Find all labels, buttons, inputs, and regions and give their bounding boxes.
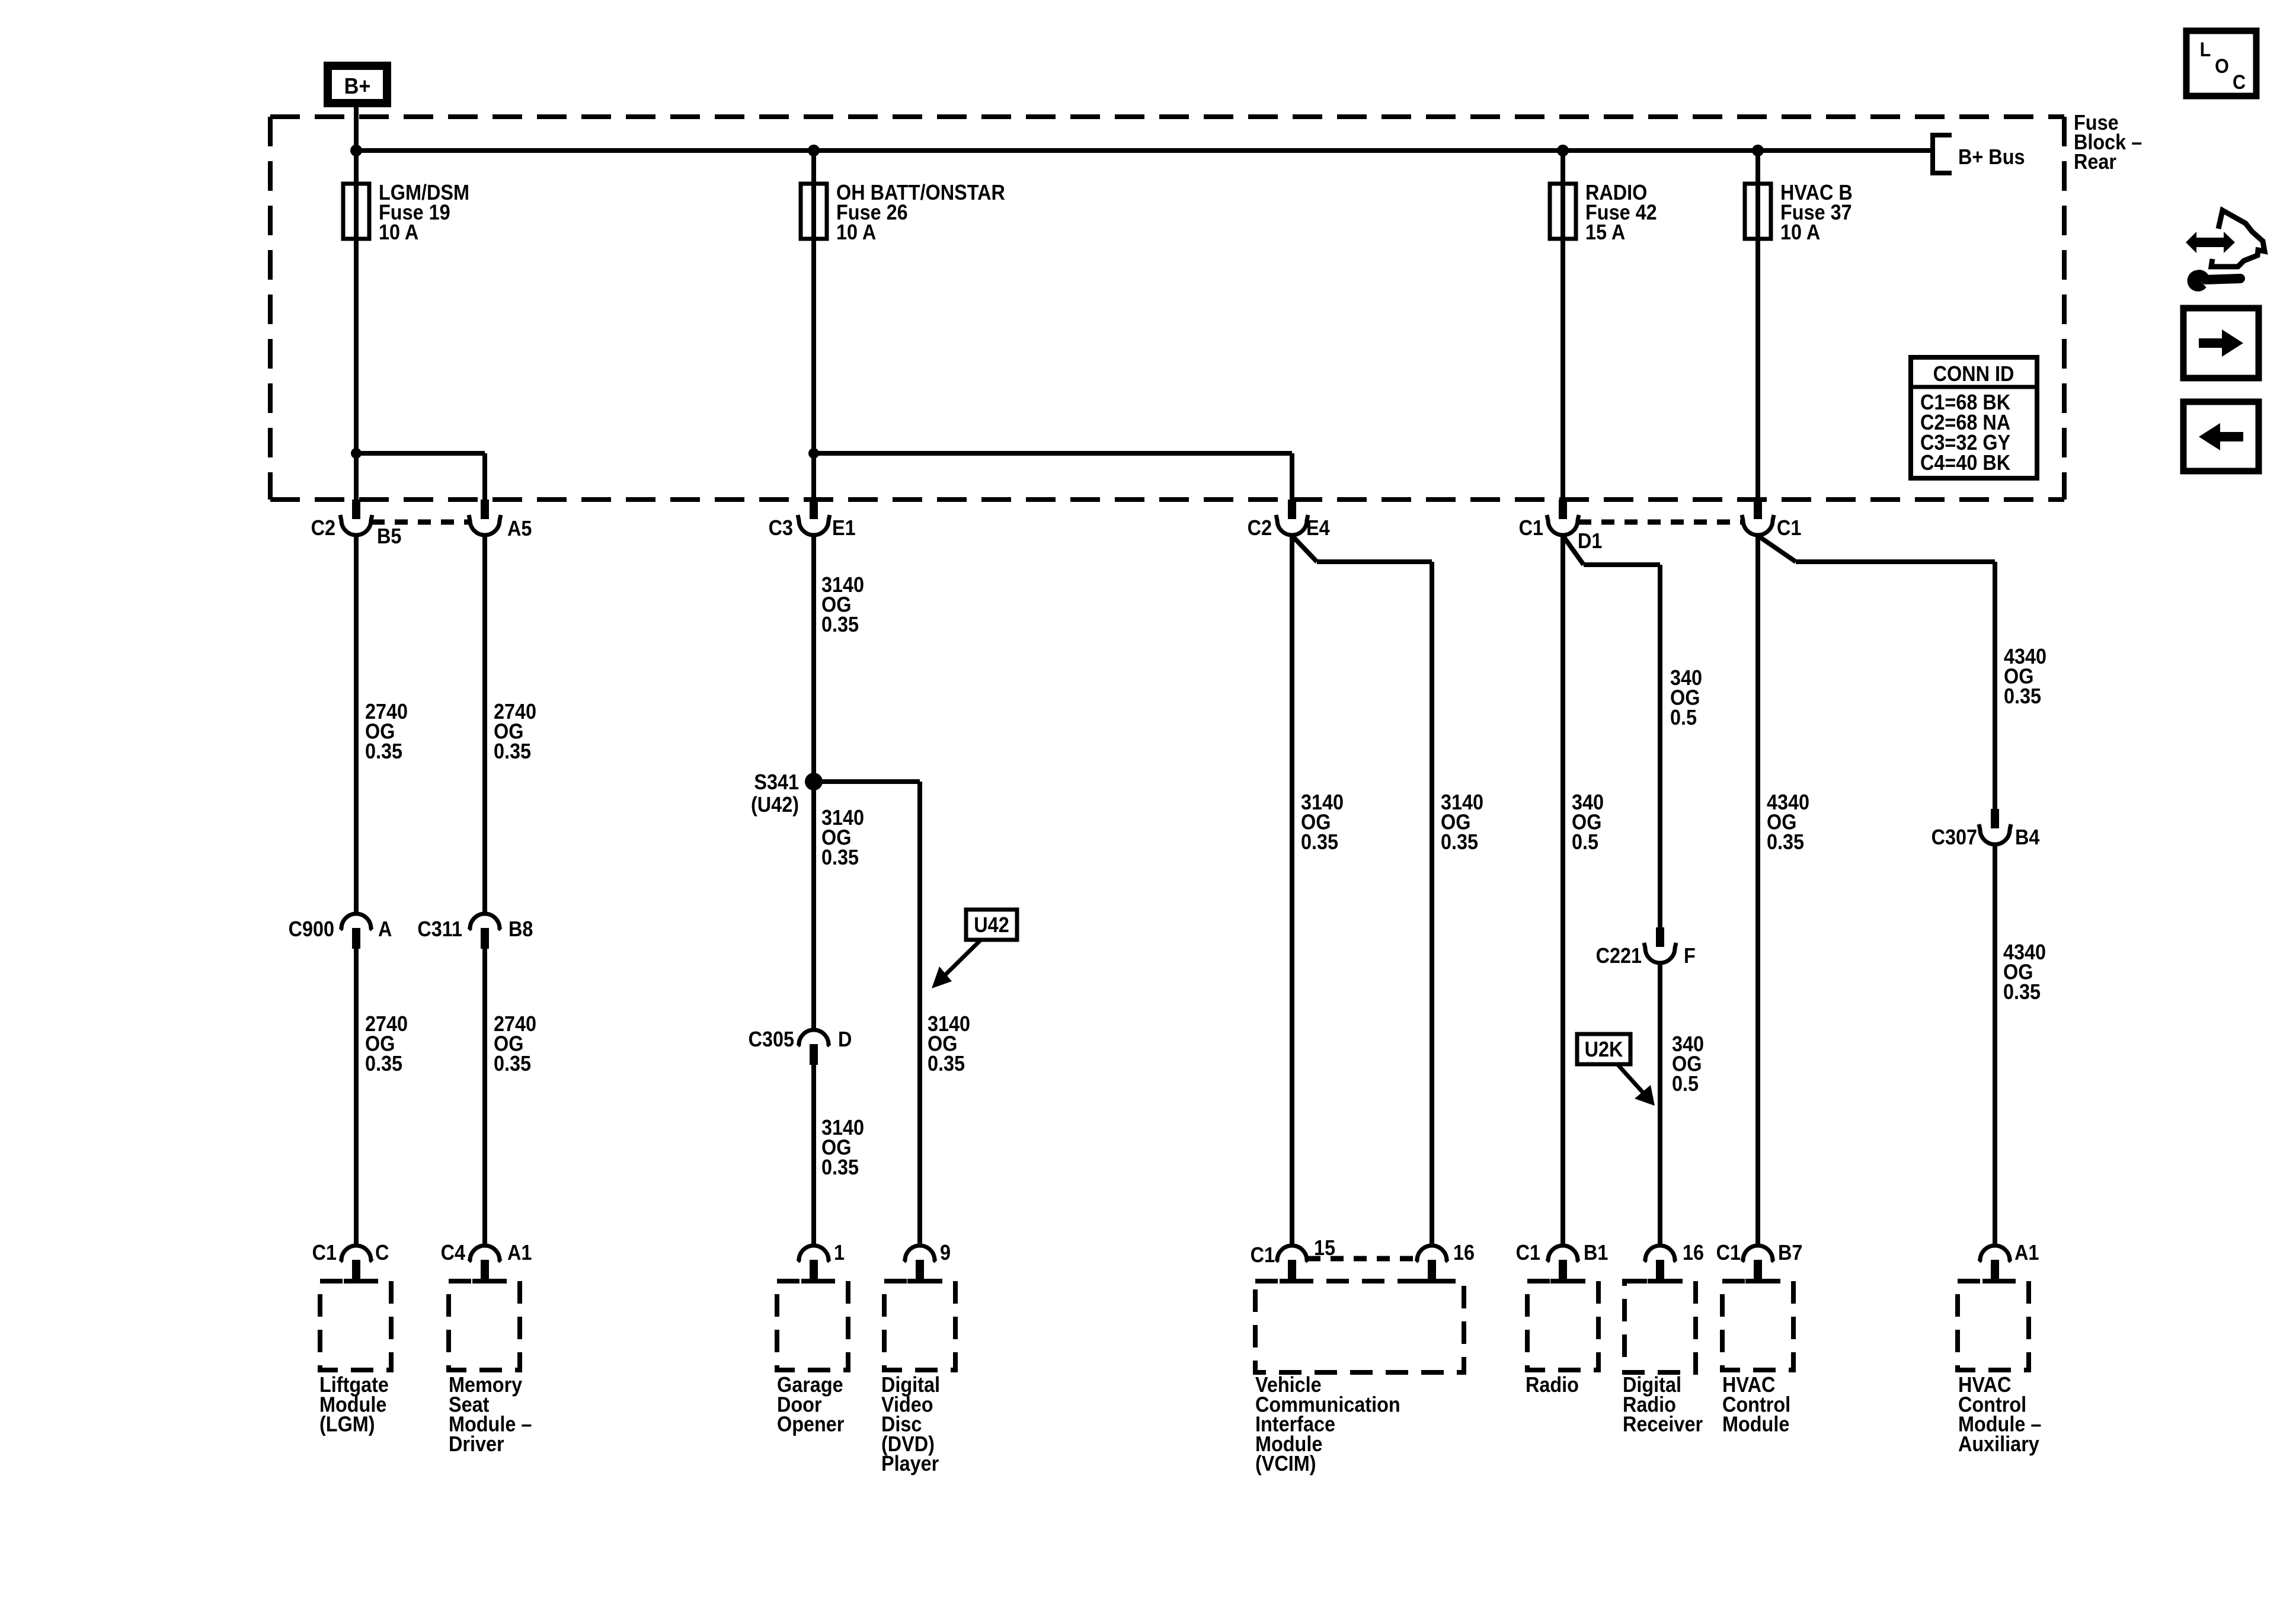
svg-text:(U42): (U42)	[751, 793, 799, 817]
svg-text:CONN ID: CONN ID	[1933, 362, 2014, 386]
wire 2740 OG to C311	[482, 536, 487, 914]
svg-text:C311: C311	[417, 917, 462, 941]
svg-text:Player: Player	[881, 1452, 939, 1476]
fuse F19 LGM/DSM	[343, 184, 369, 239]
svg-text:Driver: Driver	[449, 1432, 504, 1456]
wire branch D1 to DRR	[1563, 536, 1584, 565]
svg-text:A1: A1	[507, 1241, 532, 1265]
svg-text:0.35: 0.35	[1301, 830, 1338, 854]
junction split fuse19 branch	[351, 448, 362, 459]
svg-text:Module: Module	[1722, 1413, 1789, 1436]
dotted link 15-16	[1307, 1256, 1416, 1262]
wire 3140 OG from E1	[811, 536, 816, 1030]
svg-text:10 A: 10 A	[379, 220, 418, 244]
wire 3140 OG to GDO	[811, 1064, 816, 1246]
battery node B+	[328, 66, 387, 103]
svg-text:0.35: 0.35	[2004, 684, 2041, 708]
wrench icon	[2189, 271, 2208, 290]
svg-text:1: 1	[834, 1241, 845, 1265]
radio box	[1527, 1281, 1598, 1370]
wire branch to A5	[356, 451, 485, 456]
svg-text:B7: B7	[1778, 1241, 1802, 1265]
DVD player box	[884, 1281, 955, 1370]
svg-text:A: A	[378, 917, 392, 941]
LOC icon box	[2186, 31, 2256, 96]
svg-text:C307: C307	[1932, 825, 1977, 849]
svg-text:0.35: 0.35	[2003, 980, 2041, 1004]
svg-text:0.35: 0.35	[365, 740, 402, 763]
connector pin A1 (HVAC aux)	[1979, 1246, 2011, 1262]
wire 2740 OG to LGM	[354, 948, 359, 1246]
svg-text:E4: E4	[1306, 516, 1330, 540]
connector C3 pin E1	[810, 500, 818, 519]
svg-text:0.35: 0.35	[821, 846, 859, 869]
svg-text:(LGM): (LGM)	[319, 1413, 375, 1436]
svg-text:C900: C900	[289, 917, 334, 941]
HVAC aux module box	[1958, 1281, 2029, 1370]
svg-text:16: 16	[1683, 1241, 1704, 1265]
wire fuse19 column	[354, 151, 359, 501]
svg-text:D: D	[838, 1028, 852, 1051]
svg-text:C1: C1	[1716, 1241, 1741, 1265]
junction node fuse19 tap	[350, 145, 362, 156]
svg-text:B+: B+	[344, 73, 371, 98]
svg-text:0.35: 0.35	[928, 1052, 965, 1076]
wire branch S341 to DVD	[814, 779, 920, 784]
connector C311 pin B8	[469, 914, 501, 930]
svg-text:0.35: 0.35	[494, 1052, 531, 1076]
svg-text:C2: C2	[311, 516, 335, 540]
liftgate module box	[320, 1281, 391, 1370]
wire B+ to bus	[354, 107, 359, 151]
wire fuse42 column	[1560, 151, 1565, 501]
wire 2740 OG to C900	[354, 536, 359, 914]
svg-text:(VCIM): (VCIM)	[1255, 1452, 1316, 1476]
svg-text:C1: C1	[1519, 516, 1543, 540]
memory seat module box	[449, 1281, 520, 1370]
connector pin 9 (DVD)	[904, 1246, 936, 1262]
garage door opener box	[777, 1281, 848, 1370]
svg-text:O: O	[2215, 55, 2229, 78]
svg-text:Receiver: Receiver	[1623, 1413, 1703, 1436]
svg-text:B+ Bus: B+ Bus	[1958, 145, 2025, 169]
connector C900 pin A	[340, 914, 372, 930]
svg-text:C4: C4	[441, 1241, 465, 1265]
svg-text:C305: C305	[749, 1028, 794, 1051]
next-page arrow icon	[2183, 308, 2259, 378]
fuse F37 HVAC B	[1745, 184, 1771, 239]
connector C1 pin 15 (VCIM)	[1276, 1246, 1308, 1262]
svg-text:C1: C1	[1516, 1241, 1540, 1265]
svg-text:C2: C2	[1248, 516, 1272, 540]
connector pin 16 (VCIM)	[1416, 1246, 1448, 1262]
connector C307 pin B4	[1991, 809, 1999, 828]
svg-text:C1: C1	[1777, 516, 1801, 540]
fuse block rear dashed border	[270, 117, 2064, 500]
connector C2 pin E4	[1288, 500, 1296, 519]
prev-page arrow icon	[2183, 402, 2259, 471]
VCIM box	[1255, 1281, 1464, 1372]
U2K callout	[1577, 1034, 1630, 1064]
dotted link B5-A5	[372, 520, 469, 525]
svg-text:16: 16	[1453, 1241, 1475, 1265]
svg-text:Radio: Radio	[1526, 1373, 1579, 1397]
svg-text:10 A: 10 A	[836, 220, 876, 244]
svg-text:Rear: Rear	[2074, 150, 2116, 174]
svg-text:C3: C3	[769, 516, 793, 540]
B+ bus wire	[356, 148, 1932, 153]
HVAC control module box	[1722, 1281, 1793, 1370]
svg-text:B1: B1	[1584, 1241, 1608, 1265]
wire fuse37 column	[1755, 151, 1760, 501]
wire 2740 OG to MSM	[482, 948, 487, 1246]
svg-text:0.35: 0.35	[365, 1052, 402, 1076]
svg-text:C1: C1	[1251, 1243, 1275, 1267]
fuse F26 OH BATT/ONSTAR	[801, 184, 827, 239]
wire 340 OG D1 to B1	[1560, 536, 1565, 1246]
junction split fuse26 branch	[808, 448, 819, 459]
svg-text:9: 9	[940, 1241, 951, 1265]
wire 4340 OG to aux A1	[1993, 845, 1997, 1246]
svg-text:E1: E1	[832, 516, 856, 540]
wire branch C1 to HVAC aux	[1758, 536, 1796, 562]
wire branch to E4	[814, 451, 1292, 456]
svg-text:S341: S341	[754, 770, 799, 794]
svg-text:0.35: 0.35	[821, 613, 859, 636]
svg-text:0.5: 0.5	[1572, 830, 1598, 854]
svg-text:A5: A5	[507, 517, 532, 540]
svg-text:0.35: 0.35	[821, 1156, 859, 1179]
connector pin 1 (GDO)	[798, 1246, 830, 1262]
svg-text:0.35: 0.35	[1441, 830, 1478, 854]
connector C1 pin C (LGM)	[340, 1246, 372, 1262]
svg-text:0.5: 0.5	[1670, 706, 1697, 729]
connector C1 pin B1 (radio)	[1547, 1246, 1579, 1262]
svg-text:U42: U42	[974, 913, 1009, 937]
svg-text:C221: C221	[1596, 944, 1642, 968]
junction node fuse42 tap	[1557, 145, 1569, 156]
connector C4 pin A1 (MSM)	[469, 1246, 501, 1262]
connector C2 pin B5	[352, 500, 360, 519]
wire branch E4 to pin16	[1292, 536, 1317, 562]
wire fuse26 column	[811, 151, 816, 501]
svg-text:F: F	[1684, 944, 1696, 968]
connector C221 pin F	[1656, 927, 1664, 947]
svg-text:Auxiliary: Auxiliary	[1958, 1432, 2039, 1456]
connector pin A5	[481, 500, 489, 519]
vehicle diagnostic icon	[2211, 210, 2265, 267]
U42 callout	[966, 910, 1017, 940]
connector C1 (HVAC B)	[1754, 500, 1762, 519]
svg-text:C: C	[375, 1241, 389, 1265]
svg-text:Opener: Opener	[777, 1413, 844, 1436]
connector C305 pin D	[798, 1030, 830, 1046]
svg-text:C4=40 BK: C4=40 BK	[1920, 451, 2010, 475]
svg-text:0.35: 0.35	[494, 740, 531, 763]
svg-text:B5: B5	[377, 524, 401, 548]
svg-text:C: C	[2233, 71, 2246, 94]
svg-text:0.35: 0.35	[1767, 830, 1804, 854]
svg-text:L: L	[2200, 39, 2211, 61]
dotted link D1-C1	[1578, 520, 1742, 525]
svg-text:0.5: 0.5	[1672, 1072, 1699, 1096]
splice S341	[805, 773, 823, 790]
svg-text:U2K: U2K	[1585, 1038, 1623, 1061]
digital radio receiver box	[1625, 1281, 1696, 1372]
svg-text:B8: B8	[509, 917, 533, 941]
svg-text:A1: A1	[2014, 1241, 2039, 1265]
B+ Bus terminal bracket	[1933, 135, 1952, 173]
svg-text:15 A: 15 A	[1585, 220, 1625, 244]
svg-text:B4: B4	[2015, 825, 2039, 849]
connector pin 16 (DRR)	[1644, 1246, 1676, 1262]
svg-text:C1: C1	[312, 1241, 337, 1265]
fuse F42 RADIO	[1550, 184, 1576, 239]
CONN ID table	[1911, 357, 2037, 478]
svg-text:10 A: 10 A	[1780, 220, 1820, 244]
wire 4340 OG C1 to B7	[1755, 536, 1760, 1246]
connector C1 pin D1	[1559, 500, 1567, 519]
svg-text:D1: D1	[1578, 529, 1602, 553]
junction node fuse37 tap	[1752, 145, 1764, 156]
connector C1 pin B7 (HVAC CM)	[1742, 1246, 1774, 1262]
wire 340 OG to DRR pin16	[1658, 964, 1662, 1246]
junction node fuse26 tap	[808, 145, 820, 156]
wire 3140 OG E4 to pin15	[1290, 536, 1294, 1246]
